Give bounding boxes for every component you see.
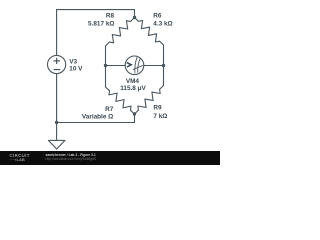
wire top from V3 to top vertex [57,10,135,18]
resistor R7 [106,87,135,114]
voltmeter needle arcs [133,57,143,73]
wire bottom return [57,122,135,124]
svg-text:R9: R9 [153,105,162,112]
node: ground junction [55,121,58,124]
voltage source V3 body [48,55,66,73]
svg-text:V3: V3 [69,58,77,65]
V3 minus sign [54,69,61,71]
wire right vertical of bridge [163,45,165,86]
svg-text:Variable Ω: Variable Ω [82,114,113,121]
node: bottom vertex junction [133,112,136,115]
svg-text:5.817 kΩ: 5.817 kΩ [88,20,114,27]
node: left bridge junction [104,64,107,67]
voltmeter VM4 body [125,56,144,75]
wire voltmeter right lead [144,65,164,67]
watermark credit line 1 [46,153,96,157]
node: top vertex junction [133,16,136,19]
svg-text:R7: R7 [105,106,114,113]
svg-text:R6: R6 [153,12,162,19]
resistor R6 [135,18,164,46]
wire left vertical of bridge [105,46,107,87]
voltmeter V glyph (rotated) [127,63,131,67]
watermark bar [0,151,220,166]
circuitlab logo [10,154,30,162]
wire voltmeter left lead [106,65,126,67]
V3 plus sign [54,60,60,62]
svg-text:R8: R8 [106,12,115,19]
svg-text:10 V: 10 V [69,65,83,72]
svg-text:115.8 μV: 115.8 μV [120,85,146,92]
wire bottom vertex drop [134,114,136,123]
ground symbol [48,140,65,149]
svg-text:7 kΩ: 7 kΩ [153,113,167,120]
resistor R9 [135,86,164,115]
wire V3 top lead [56,10,58,56]
wire V3 bottom lead [56,74,58,141]
svg-text:4.3 kΩ: 4.3 kΩ [153,20,172,27]
node: right bridge junction [162,64,165,67]
resistor R8 [106,18,135,47]
watermark credit line 2 [46,157,97,161]
